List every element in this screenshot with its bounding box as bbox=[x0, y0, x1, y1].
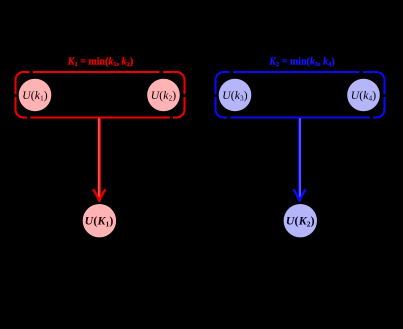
blue arrowhead bbox=[294, 190, 305, 201]
node U(k2) bbox=[147, 79, 180, 112]
label K1 = min(k1,k2) bbox=[67, 57, 133, 69]
svg-text:U(k4): U(k4) bbox=[351, 89, 377, 103]
svg-text:K2 = min(k3, k4): K2 = min(k3, k4) bbox=[268, 57, 334, 69]
dashed blue group box bbox=[216, 72, 385, 118]
node U(k4) bbox=[347, 79, 380, 112]
svg-text:K1 = min(k1, k2): K1 = min(k1, k2) bbox=[67, 57, 133, 69]
red arrow shaft bbox=[98, 118, 102, 199]
blue arrow shaft bbox=[298, 118, 302, 199]
svg-text:U(k1): U(k1) bbox=[22, 89, 48, 103]
node U(K2) bbox=[284, 204, 317, 237]
red arrowhead bbox=[94, 190, 105, 201]
svg-text:U(K1): U(K1) bbox=[85, 214, 114, 229]
dashed red group box bbox=[16, 72, 185, 118]
node U(k1) bbox=[19, 79, 52, 112]
node U(K1) bbox=[83, 204, 116, 237]
svg-text:U(k2): U(k2) bbox=[151, 89, 177, 103]
svg-text:U(k3): U(k3) bbox=[222, 89, 248, 103]
svg-text:U(K2): U(K2) bbox=[286, 214, 315, 229]
node U(k3) bbox=[219, 79, 252, 112]
label K2 = min(k3,k4) bbox=[268, 57, 334, 69]
